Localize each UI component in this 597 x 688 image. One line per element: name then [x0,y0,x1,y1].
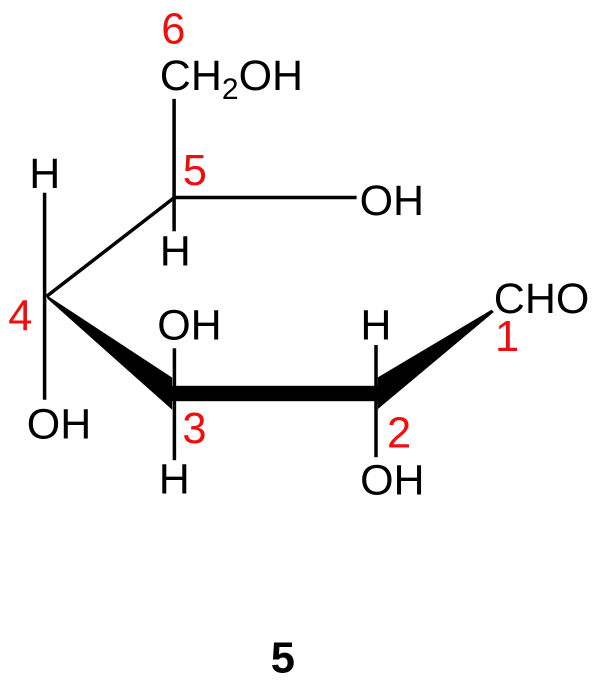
bond H-C2 [374,345,378,388]
svg-text:5: 5 [183,147,207,195]
wedge bond C4-C3 [46,295,172,410]
svg-text:OH: OH [27,401,92,449]
svg-text:H: H [159,455,190,503]
svg-text:5: 5 [271,634,295,682]
svg-text:OH: OH [157,301,222,349]
svg-text:OH: OH [360,177,425,225]
svg-text:4: 4 [8,293,32,341]
bond C5-OH [172,196,356,200]
svg-text:1: 1 [495,313,519,361]
svg-text:2: 2 [387,409,411,457]
bond C5-H [172,198,176,232]
svg-text:H: H [29,150,60,198]
bond H-C4-OH vertical [43,193,47,400]
svg-text:H: H [160,228,191,276]
svg-text:3: 3 [182,405,206,453]
bond OH-C3 [173,348,177,388]
bond C6-C5 (CH2OH to C5) [172,99,176,200]
svg-text:OH: OH [360,457,425,505]
bond C5-C4 [46,198,174,297]
bold bond C3-C2 [172,386,379,401]
wedge bond C2-C1 (to CHO) [378,310,494,409]
svg-text:H: H [360,301,391,349]
svg-text:6: 6 [161,6,185,54]
bond C2-OH [374,400,378,457]
bond C3-H [173,400,177,460]
